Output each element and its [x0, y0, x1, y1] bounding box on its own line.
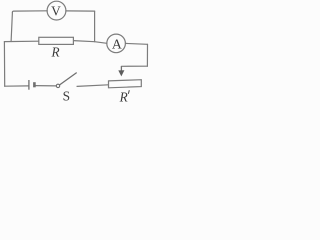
wire voltmeter right vertical [94, 11, 96, 42]
wire switch to rheostat [77, 85, 108, 87]
wire bottom-right horizontal to slider [121, 65, 147, 67]
slider arrowhead [118, 70, 124, 76]
svg-text:S: S [63, 89, 70, 104]
rheostat R' box [109, 80, 142, 88]
wire battery to switch [36, 85, 57, 87]
wire top-left horizontal to voltmeter [12, 11, 47, 13]
battery cell [29, 80, 35, 90]
wire row left to resistor [4, 40, 38, 42]
svg-text:A: A [112, 36, 122, 51]
battery short thick plate [33, 82, 36, 87]
switch S pivot [56, 84, 59, 87]
wire right vertical [146, 44, 148, 66]
battery long plate [28, 80, 30, 90]
resistor R box [39, 37, 74, 44]
wire voltmeter left vertical [11, 13, 12, 42]
wire resistor to ammeter [73, 41, 107, 44]
voltmeter V [47, 1, 66, 20]
svg-text:V: V [51, 4, 61, 19]
label R prime tick [127, 91, 130, 94]
wire ammeter right [125, 42, 147, 45]
wire left main vertical [3, 42, 5, 87]
slider arrow stem [120, 66, 122, 71]
wire top-right from voltmeter [66, 10, 95, 12]
svg-text:R: R [119, 89, 128, 104]
switch lever [60, 73, 77, 85]
svg-text:R: R [50, 44, 59, 59]
wire bottom from left vertical to battery [5, 85, 29, 87]
ammeter A [107, 34, 126, 53]
